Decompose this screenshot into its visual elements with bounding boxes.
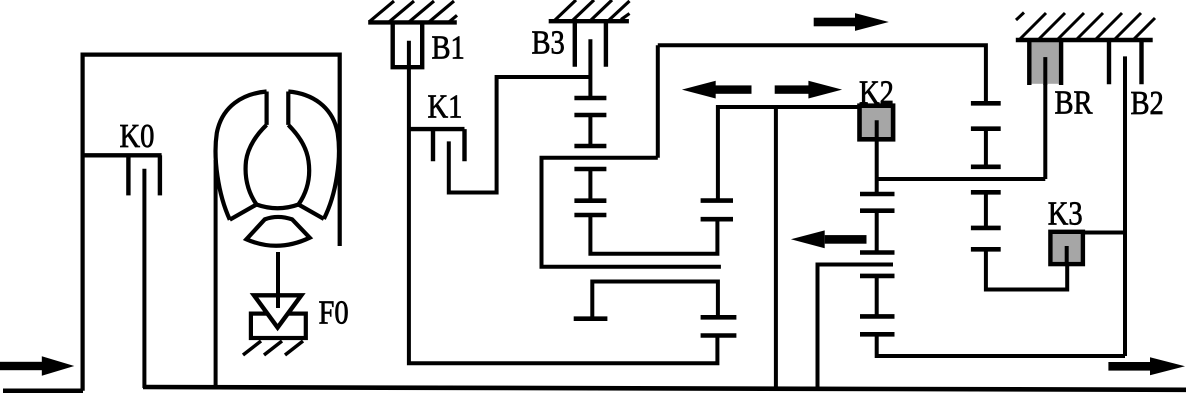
svg-text:B2: B2 — [1131, 84, 1164, 122]
svg-text:F0: F0 — [319, 293, 349, 331]
svg-text:K3: K3 — [1048, 194, 1083, 232]
svg-text:K0: K0 — [120, 117, 155, 155]
svg-text:B1: B1 — [432, 28, 465, 66]
svg-text:B3: B3 — [532, 23, 565, 61]
svg-text:BR: BR — [1055, 83, 1093, 121]
svg-text:K2: K2 — [859, 73, 894, 111]
svg-text:K1: K1 — [428, 87, 463, 125]
